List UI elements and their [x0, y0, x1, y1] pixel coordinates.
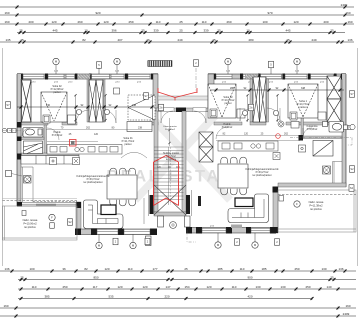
grid square bottom 2 — [145, 238, 150, 245]
door bedroom B right — [267, 108, 280, 121]
svg-text:262: 262 — [86, 127, 91, 130]
door bedroom A left — [76, 110, 89, 123]
wall pier south right — [270, 227, 276, 234]
grid square bottom 3 — [235, 239, 240, 246]
bedroom south wall left unit — [21, 122, 48, 125]
svg-text:Hodnik: Hodnik — [53, 132, 61, 134]
svg-text:25: 25 — [20, 38, 24, 42]
svg-text:385: 385 — [44, 295, 49, 299]
grid square top center — [194, 60, 199, 67]
wall pier top — [208, 74, 216, 80]
svg-text:136: 136 — [4, 267, 9, 271]
window south wall left — [124, 229, 150, 234]
dimension row top 3 — [0, 23, 354, 26]
wardrobe column wall right unit — [250, 79, 253, 122]
stair dim string vertical — [168, 118, 170, 146]
svg-text:2409: 2409 — [341, 3, 348, 7]
svg-text:120: 120 — [244, 133, 249, 136]
bubble stem 3 — [227, 65, 229, 74]
stem — [132, 235, 134, 243]
bedroom south wall right unit — [214, 122, 242, 125]
window top wall — [311, 74, 334, 78]
door bath right — [303, 128, 312, 137]
wall pier south left — [150, 229, 157, 236]
wall pier top — [17, 74, 23, 80]
watermark logo — [135, 100, 230, 200]
svg-text:535: 535 — [108, 295, 113, 299]
red marker box left — [70, 140, 77, 147]
side label left — [6, 102, 11, 109]
svg-text:ter.pločice: ter.pločice — [310, 207, 322, 211]
porch axis line — [195, 60, 197, 92]
svg-text:160: 160 — [4, 11, 9, 15]
radiator block under sofa right — [231, 225, 242, 229]
east wall right unit living — [273, 187, 278, 233]
dresser below bed soba01 — [127, 122, 152, 132]
south wall right unit living — [186, 228, 276, 234]
wall pier south right — [246, 227, 251, 234]
wall pier top — [89, 74, 92, 80]
svg-text:82: 82 — [82, 38, 86, 42]
exterior wall top right unit — [208, 74, 346, 79]
door entry right unit — [194, 111, 206, 123]
kitchen lower counter row left unit — [21, 156, 79, 165]
window top wall — [66, 74, 75, 78]
corridor door arc right unit — [216, 127, 228, 139]
svg-text:110: 110 — [32, 285, 37, 289]
interior dim string right unit — [210, 89, 344, 92]
svg-text:160: 160 — [345, 304, 350, 308]
svg-text:200: 200 — [323, 20, 328, 24]
dining table right unit — [218, 157, 248, 195]
small box 1k — [146, 236, 152, 246]
svg-text:900: 900 — [247, 276, 252, 280]
svg-text:ter.pločice: ter.pločice — [166, 158, 177, 161]
wall left unit south opening (sliding door) — [21, 203, 77, 207]
bed soba01 left (pointed left) — [128, 95, 155, 120]
left crop edge line — [2, 48, 4, 266]
bubble stem 2 — [116, 65, 118, 74]
label box left margin lower — [6, 171, 23, 177]
window top wall — [337, 74, 341, 78]
bath fixtures right unit — [323, 122, 344, 133]
svg-text:Natkr. terasa: Natkr. terasa — [309, 200, 324, 204]
wardrobe right hall upper — [199, 132, 213, 147]
door bedroom A right — [240, 108, 253, 121]
door circle left a — [76, 109, 81, 114]
svg-text:110: 110 — [232, 285, 237, 289]
tiny dim row bedroom left — [46, 129, 152, 131]
hatched wall block — [78, 74, 91, 79]
svg-text:120: 120 — [293, 20, 298, 24]
window top wall — [128, 74, 150, 78]
svg-text:160: 160 — [347, 20, 352, 24]
svg-text:25: 25 — [141, 29, 145, 33]
wall pier top — [125, 74, 128, 80]
svg-text:S7: S7 — [6, 103, 10, 107]
stair hall label — [163, 152, 179, 161]
wall pier south left — [118, 229, 124, 236]
bath south boundary right unit / kitchen top — [303, 136, 342, 139]
svg-text:140: 140 — [326, 285, 331, 289]
water meter outside right — [344, 124, 356, 129]
terrace right drain — [279, 196, 284, 202]
svg-text:117: 117 — [93, 285, 98, 289]
svg-text:parket: parket — [225, 102, 232, 105]
terrace right dashed — [278, 194, 356, 196]
svg-text:248: 248 — [132, 104, 137, 107]
living door arc left unit — [121, 152, 147, 158]
black pier bath right — [299, 135, 304, 141]
wall pier top — [75, 74, 78, 80]
svg-text:parket: parket — [54, 91, 61, 94]
wall pier top — [341, 74, 346, 80]
hatched wall block — [246, 74, 259, 79]
svg-text:250: 250 — [62, 285, 67, 289]
red stair outline — [154, 156, 179, 206]
nightstand — [237, 109, 245, 118]
corridor line right unit — [216, 140, 300, 142]
tv table right unit — [235, 198, 253, 207]
window south wall right — [202, 228, 226, 232]
wc fixtures right unit — [278, 121, 299, 128]
svg-text:850: 850 — [93, 276, 98, 280]
living east wall lines left unit — [144, 190, 149, 224]
wardrobe right wall lower — [327, 99, 341, 122]
dimension row bottom 6 — [0, 315, 356, 318]
meter circle below stair — [170, 222, 177, 229]
bed pillow — [210, 109, 217, 117]
floor drain hatched right unit — [323, 166, 331, 174]
label box porch left — [144, 93, 149, 100]
bed soba02 left — [41, 92, 67, 122]
wall pier south left — [91, 229, 97, 236]
wall pier top — [45, 74, 48, 80]
grid square top right wall — [269, 61, 274, 68]
svg-text:P=4,30m2: P=4,30m2 — [165, 129, 176, 131]
svg-text:120: 120 — [94, 133, 99, 136]
tiny dim row bedroom right — [216, 135, 300, 137]
svg-text:130: 130 — [255, 285, 260, 289]
terrace left dashed overhang — [3, 200, 78, 202]
grid bubble bottom 3 — [215, 242, 221, 248]
svg-text:10: 10 — [84, 29, 88, 33]
wardrobe right wall upper — [327, 76, 341, 99]
bed pillow — [43, 115, 50, 123]
room label soba1 right — [297, 100, 310, 109]
window top wall — [111, 74, 124, 78]
porch-hall wall — [156, 108, 214, 113]
dimension row total top — [0, 6, 354, 9]
right crop edge line — [357, 48, 359, 266]
svg-text:238: 238 — [138, 127, 143, 130]
room label soba01 left — [122, 137, 135, 146]
terrace right — [278, 190, 356, 232]
svg-text:445: 445 — [52, 29, 57, 33]
terrace right label — [309, 200, 324, 211]
svg-text:240: 240 — [46, 104, 51, 107]
svg-text:407: 407 — [117, 38, 122, 42]
nightstand — [68, 115, 76, 124]
sofa right unit — [228, 194, 269, 223]
red canopy drain line — [158, 88, 197, 101]
stair shaft east wall black foot — [186, 195, 190, 214]
svg-text:25: 25 — [217, 29, 221, 33]
coffee table left unit — [101, 205, 116, 215]
corridor door arc left unit — [47, 128, 59, 140]
window top wall — [216, 74, 232, 78]
svg-text:25: 25 — [286, 38, 290, 42]
dimension row top 4 — [17, 31, 345, 34]
svg-text:110: 110 — [128, 267, 133, 271]
floor drain hatched left unit — [24, 176, 32, 184]
svg-text:25: 25 — [179, 20, 183, 24]
svg-text:P=6,5m2: P=6,5m2 — [166, 156, 176, 158]
bath east wall left unit — [44, 125, 47, 154]
label box hall right — [249, 104, 254, 111]
west wall lines right unit — [191, 190, 193, 216]
wardrobe column right a — [253, 77, 260, 122]
window top wall — [23, 74, 44, 78]
wall pier south right — [186, 227, 192, 234]
bubble stem 4 — [296, 65, 298, 74]
wall pier south right — [226, 227, 232, 234]
svg-text:339: 339 — [153, 29, 158, 33]
side label right terrace — [350, 166, 355, 173]
washer left unit — [24, 141, 43, 154]
stair shaft south wall — [154, 212, 186, 216]
svg-text:280: 280 — [248, 38, 253, 42]
nightstand — [318, 112, 326, 120]
door circle right b — [273, 110, 278, 115]
svg-text:130: 130 — [321, 267, 326, 271]
wall pier top — [334, 74, 337, 80]
svg-text:136: 136 — [347, 38, 352, 42]
porch slab edge — [158, 96, 208, 100]
svg-text:P=11,38m2: P=11,38m2 — [309, 204, 323, 208]
svg-text:110: 110 — [202, 20, 207, 24]
bed pillow — [290, 112, 297, 120]
window top wall — [285, 74, 307, 78]
stem — [270, 68, 272, 74]
svg-text:249: 249 — [177, 38, 182, 42]
floor divider L right unit — [333, 162, 343, 184]
dimension row bottom 5 — [0, 307, 356, 310]
radiator box left below stair — [158, 216, 164, 227]
svg-text:970: 970 — [267, 11, 272, 15]
svg-text:25: 25 — [330, 29, 334, 33]
svg-text:S7: S7 — [144, 94, 148, 98]
wall pier top — [258, 74, 261, 80]
svg-text:Stubište prostor: Stubište prostor — [163, 152, 179, 155]
terrace drain small sq — [22, 211, 26, 216]
svg-text:120: 120 — [206, 285, 211, 289]
dimension row bottom 2 — [18, 278, 356, 281]
exterior wall right — [342, 74, 346, 187]
svg-text:F: F — [296, 202, 298, 206]
svg-text:339: 339 — [203, 29, 208, 33]
radiator box right below stair — [185, 216, 191, 227]
dimension row bottom 3 — [18, 288, 356, 291]
marker box x — [73, 158, 80, 165]
door bedroom B left — [103, 110, 116, 123]
svg-text:Ulazni prostor: Ulazni prostor — [163, 125, 177, 128]
svg-text:147: 147 — [165, 285, 170, 289]
window top wall — [48, 74, 64, 78]
vertical dim stub left a — [74, 94, 106, 122]
svg-text:120: 120 — [104, 267, 109, 271]
svg-text:160: 160 — [3, 304, 8, 308]
dimension row bottom 4 — [18, 297, 314, 300]
label box hall left — [159, 104, 164, 111]
grid bubble bottom 4 — [252, 242, 258, 248]
hall south wall left unit — [21, 153, 79, 156]
svg-text:154: 154 — [184, 285, 189, 289]
room label living left — [76, 175, 110, 184]
porch wall left — [153, 74, 158, 111]
svg-text:25: 25 — [20, 276, 24, 280]
stair shaft east wall — [182, 111, 186, 212]
svg-text:parket: parket — [125, 143, 132, 146]
svg-text:260: 260 — [77, 20, 82, 24]
grid bubble top 3 — [225, 58, 231, 64]
wall pier top — [151, 74, 158, 80]
svg-text:ter.pločica/parket: ter.pločica/parket — [84, 181, 103, 184]
black bar right of stair — [198, 196, 201, 206]
svg-text:420: 420 — [247, 295, 252, 299]
svg-text:130: 130 — [280, 285, 285, 289]
svg-text:P=4,68m2: P=4,68m2 — [307, 129, 318, 131]
sofa left unit — [84, 200, 124, 229]
svg-text:120: 120 — [142, 285, 147, 289]
terrace box left — [50, 223, 55, 229]
svg-text:185: 185 — [217, 267, 222, 271]
corridor line left unit — [47, 141, 98, 143]
bubble stem 1 — [55, 65, 57, 74]
marker box dot — [50, 158, 57, 165]
wall pier south right — [196, 227, 202, 234]
svg-text:P=10,06m2: P=10,06m2 — [23, 222, 37, 226]
svg-text:348: 348 — [301, 87, 306, 90]
axis line into left wall — [3, 130, 21, 132]
terrace north wall right — [278, 183, 346, 187]
terrace bubble right — [294, 201, 300, 207]
svg-text:25: 25 — [179, 29, 183, 33]
svg-text:10: 10 — [246, 29, 250, 33]
water meter outside left — [2, 128, 16, 132]
dining table left unit — [107, 168, 137, 206]
kitchen counter right unit — [218, 141, 278, 151]
svg-text:Natkr. terasa: Natkr. terasa — [23, 218, 38, 222]
bath mid wall left unit — [21, 137, 44, 140]
svg-text:120: 120 — [103, 20, 108, 24]
wardrobe column left b — [96, 80, 103, 122]
svg-text:110: 110 — [240, 267, 245, 271]
svg-text:Hodnik: Hodnik — [223, 124, 231, 126]
south wall left unit living — [75, 229, 157, 235]
left wall black piers — [17, 122, 22, 128]
dashdot L below stair — [187, 230, 196, 242]
bed soba1 right — [288, 84, 318, 118]
svg-text:parket: parket — [300, 106, 307, 109]
striped lintel block — [148, 61, 172, 67]
svg-text:ter.pločice: ter.pločice — [24, 225, 36, 229]
svg-text:25: 25 — [212, 38, 216, 42]
corridor south wall right unit — [213, 121, 215, 123]
svg-text:S7: S7 — [350, 92, 354, 96]
svg-text:160: 160 — [4, 20, 9, 24]
axis line right with hook — [290, 138, 352, 146]
svg-text:250: 250 — [305, 285, 310, 289]
svg-text:100: 100 — [29, 267, 34, 271]
bath label right — [307, 126, 319, 131]
wardrobe column right b — [260, 77, 267, 122]
label terrace left — [68, 219, 73, 226]
svg-text:262: 262 — [284, 133, 289, 136]
svg-text:249: 249 — [311, 38, 316, 42]
svg-text:177: 177 — [152, 267, 157, 271]
window top wall — [92, 74, 110, 78]
svg-text:160: 160 — [345, 11, 350, 15]
svg-text:82: 82 — [84, 267, 88, 271]
small boxes kitchen right — [273, 145, 306, 160]
dimension row top 2 — [0, 14, 354, 17]
red outlet circle right — [276, 134, 281, 139]
grid bubble bottom 1 — [96, 242, 102, 248]
wall pier top — [308, 74, 311, 80]
floor divider L left unit — [21, 167, 33, 202]
vertical dim stub right a — [246, 94, 278, 122]
room label living right — [245, 168, 279, 177]
fridge right unit — [313, 141, 333, 157]
svg-text:F: F — [51, 216, 53, 220]
svg-text:120: 120 — [51, 20, 56, 24]
interior dim string left unit — [17, 106, 155, 109]
svg-text:445: 445 — [285, 29, 290, 33]
svg-text:36: 36 — [62, 267, 66, 271]
svg-text:260: 260 — [226, 20, 231, 24]
svg-text:S2: S2 — [68, 220, 72, 224]
terrace left label — [23, 218, 38, 229]
svg-text:25: 25 — [184, 267, 188, 271]
bath west wall right unit — [301, 110, 304, 138]
wall pier south left — [75, 229, 81, 236]
svg-text:25: 25 — [330, 276, 334, 280]
svg-text:2409: 2409 — [343, 312, 350, 316]
wardrobe column wall left unit — [87, 79, 89, 122]
svg-text:200: 200 — [28, 20, 33, 24]
door circle right a — [242, 110, 247, 115]
nightstand — [114, 88, 120, 94]
stair shaft west wall black foot — [150, 195, 154, 214]
dimension row top 5 — [0, 41, 354, 44]
grid bubble top 2 — [114, 58, 120, 64]
svg-text:135: 135 — [5, 38, 10, 42]
window top wall — [261, 74, 282, 78]
door bath left — [22, 128, 30, 136]
svg-text:S2: S2 — [350, 167, 354, 171]
door entry left unit — [161, 111, 173, 123]
stair treads — [154, 147, 184, 200]
wall pier top — [240, 74, 243, 80]
wall left unit sw corner — [76, 202, 81, 235]
stem — [98, 68, 100, 74]
stair tiny dims — [157, 167, 180, 169]
room label soba02 left — [51, 85, 64, 94]
svg-text:P=3,90m2: P=3,90m2 — [52, 135, 63, 137]
grid square bottom 1 — [113, 238, 118, 245]
hodnik label right unit — [222, 124, 233, 129]
